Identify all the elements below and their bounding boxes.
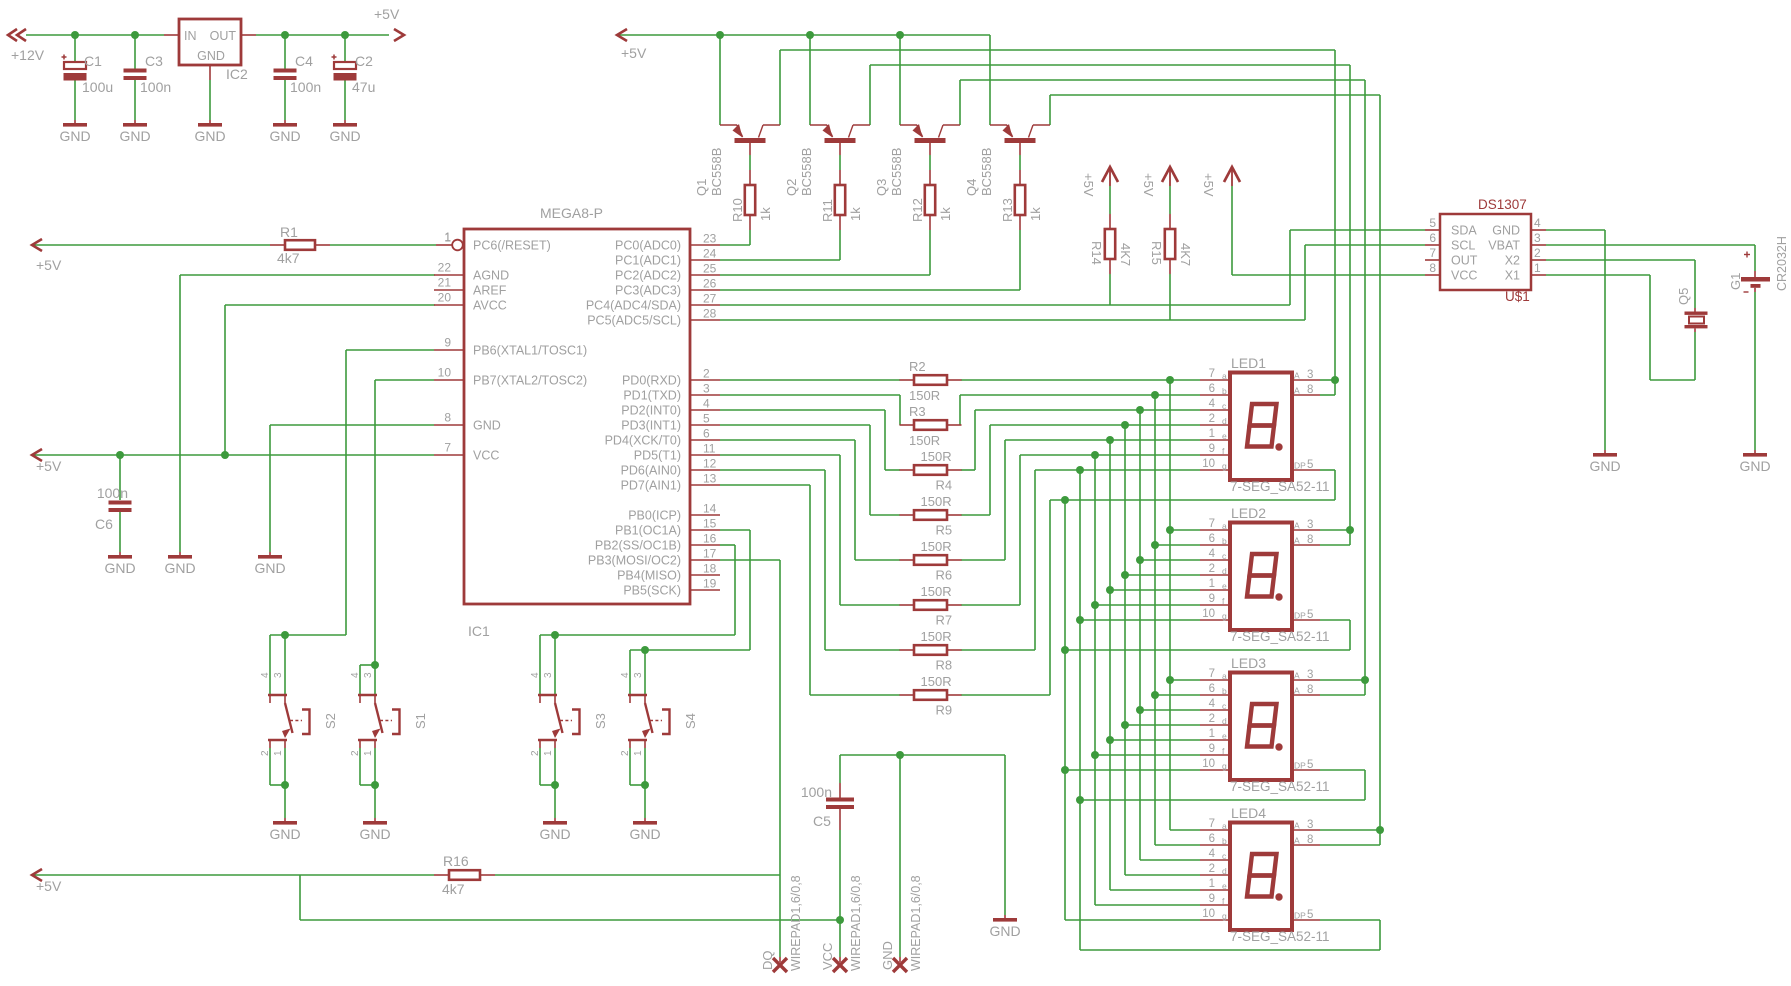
svg-text:9: 9 <box>1209 443 1215 455</box>
svg-text:GND: GND <box>269 128 300 144</box>
svg-text:WIREPAD1,6/0,8: WIREPAD1,6/0,8 <box>849 875 863 971</box>
svg-text:3: 3 <box>1307 669 1313 681</box>
svg-text:G1: G1 <box>1728 273 1743 290</box>
svg-text:+5V: +5V <box>1081 173 1096 197</box>
svg-text:LED2: LED2 <box>1231 505 1266 521</box>
svg-text:100n: 100n <box>97 485 128 501</box>
svg-text:S4: S4 <box>683 713 698 729</box>
svg-text:PC2(ADC2): PC2(ADC2) <box>615 269 681 283</box>
svg-text:X2: X2 <box>1505 254 1520 268</box>
svg-text:g: g <box>1222 911 1227 921</box>
svg-text:4: 4 <box>260 672 271 678</box>
svg-text:GND: GND <box>1739 458 1770 474</box>
svg-text:C2: C2 <box>355 53 373 69</box>
svg-text:e: e <box>1222 431 1227 441</box>
svg-text:27: 27 <box>703 292 717 306</box>
svg-text:26: 26 <box>703 277 717 291</box>
svg-text:PC4(ADC4/SDA): PC4(ADC4/SDA) <box>586 299 681 313</box>
svg-text:PB3(MOSI/OC2): PB3(MOSI/OC2) <box>588 554 681 568</box>
svg-text:+5V: +5V <box>36 878 62 894</box>
svg-text:R3: R3 <box>909 404 926 419</box>
svg-text:7: 7 <box>1209 668 1215 680</box>
svg-text:PC0(ADC0): PC0(ADC0) <box>615 239 681 253</box>
svg-text:d: d <box>1222 866 1227 876</box>
svg-text:3: 3 <box>1307 519 1313 531</box>
svg-text:15: 15 <box>703 517 717 531</box>
svg-text:24: 24 <box>703 247 717 261</box>
svg-text:b: b <box>1222 386 1227 396</box>
svg-text:Q3: Q3 <box>874 179 889 196</box>
svg-text:R14: R14 <box>1089 241 1104 265</box>
svg-text:GND: GND <box>119 128 150 144</box>
svg-text:4: 4 <box>1209 848 1216 860</box>
svg-text:3: 3 <box>1307 369 1313 381</box>
svg-text:6: 6 <box>1209 833 1215 845</box>
svg-text:+5V: +5V <box>374 6 400 22</box>
svg-text:7: 7 <box>1209 818 1215 830</box>
svg-text:IC1: IC1 <box>468 623 490 639</box>
svg-text:1k: 1k <box>758 207 773 221</box>
svg-text:R13: R13 <box>1000 198 1015 222</box>
svg-text:a: a <box>1222 821 1227 831</box>
svg-text:a: a <box>1222 371 1227 381</box>
svg-text:4: 4 <box>1534 216 1541 230</box>
svg-text:10: 10 <box>1202 908 1215 920</box>
svg-text:4k7: 4k7 <box>277 250 300 266</box>
svg-text:16: 16 <box>703 532 717 546</box>
svg-text:DP: DP <box>1294 611 1306 621</box>
svg-text:OUT: OUT <box>1451 254 1478 268</box>
svg-text:4: 4 <box>703 397 710 411</box>
svg-text:S2: S2 <box>323 713 338 729</box>
svg-text:7-SEG_SA52-11: 7-SEG_SA52-11 <box>1230 479 1330 494</box>
svg-text:5: 5 <box>1307 459 1313 471</box>
svg-text:PC3(ADC3): PC3(ADC3) <box>615 284 681 298</box>
svg-text:R11: R11 <box>820 199 835 222</box>
svg-text:VCC: VCC <box>1451 269 1477 283</box>
svg-text:A: A <box>1294 671 1300 681</box>
svg-text:PC5(ADC5/SCL): PC5(ADC5/SCL) <box>587 314 681 328</box>
svg-text:S3: S3 <box>593 713 608 729</box>
svg-text:1: 1 <box>1209 728 1215 740</box>
svg-text:GND: GND <box>359 826 390 842</box>
svg-text:C5: C5 <box>813 813 831 829</box>
svg-text:23: 23 <box>703 232 717 246</box>
svg-text:7-SEG_SA52-11: 7-SEG_SA52-11 <box>1230 629 1330 644</box>
svg-text:7: 7 <box>1209 368 1215 380</box>
svg-text:1k: 1k <box>848 207 863 221</box>
svg-text:S1: S1 <box>413 713 428 729</box>
svg-text:R16: R16 <box>443 853 469 869</box>
svg-text:e: e <box>1222 581 1227 591</box>
svg-text:1: 1 <box>1209 878 1215 890</box>
svg-text:VBAT: VBAT <box>1488 239 1520 253</box>
svg-text:GND: GND <box>1589 458 1620 474</box>
svg-text:PB4(MISO): PB4(MISO) <box>617 569 681 583</box>
svg-text:R5: R5 <box>936 523 953 538</box>
svg-text:AREF: AREF <box>473 284 507 298</box>
svg-text:DP: DP <box>1294 461 1306 471</box>
svg-text:100u: 100u <box>82 79 113 95</box>
svg-text:Q5: Q5 <box>1676 288 1691 305</box>
svg-text:R12: R12 <box>910 198 925 222</box>
svg-text:PD7(AIN1): PD7(AIN1) <box>621 479 681 493</box>
svg-text:BC558B: BC558B <box>799 148 814 196</box>
svg-text:A: A <box>1294 521 1300 531</box>
svg-text:R15: R15 <box>1149 241 1164 265</box>
svg-text:LED4: LED4 <box>1231 805 1266 821</box>
svg-text:PD0(RXD): PD0(RXD) <box>622 374 681 388</box>
svg-text:3: 3 <box>703 382 710 396</box>
svg-text:17: 17 <box>703 547 717 561</box>
svg-text:9: 9 <box>444 336 451 350</box>
svg-text:9: 9 <box>1209 893 1215 905</box>
svg-text:C1: C1 <box>84 53 102 69</box>
svg-text:R9: R9 <box>936 703 953 718</box>
svg-text:g: g <box>1222 761 1227 771</box>
svg-text:4k7: 4k7 <box>442 881 465 897</box>
svg-text:PD3(INT1): PD3(INT1) <box>621 419 681 433</box>
svg-text:MEGA8-P: MEGA8-P <box>540 205 603 221</box>
svg-text:BC558B: BC558B <box>709 148 724 196</box>
svg-text:1: 1 <box>444 231 451 245</box>
svg-text:d: d <box>1222 416 1227 426</box>
svg-text:8: 8 <box>444 411 451 425</box>
svg-text:3: 3 <box>543 672 554 678</box>
svg-text:9: 9 <box>1209 593 1215 605</box>
svg-text:GND: GND <box>539 826 570 842</box>
svg-text:2: 2 <box>1209 863 1215 875</box>
svg-text:7-SEG_SA52-11: 7-SEG_SA52-11 <box>1230 929 1330 944</box>
svg-text:6: 6 <box>703 427 710 441</box>
svg-text:PD2(INT0): PD2(INT0) <box>621 404 681 418</box>
svg-text:5: 5 <box>1429 216 1436 230</box>
svg-text:6: 6 <box>1209 533 1215 545</box>
svg-text:DQ: DQ <box>760 951 775 971</box>
svg-text:SCL: SCL <box>1451 239 1475 253</box>
svg-text:LED3: LED3 <box>1231 655 1266 671</box>
svg-text:OUT: OUT <box>210 29 237 43</box>
svg-text:2: 2 <box>703 367 710 381</box>
svg-text:25: 25 <box>703 262 717 276</box>
svg-text:10: 10 <box>438 366 452 380</box>
svg-text:28: 28 <box>703 307 717 321</box>
svg-text:PD5(T1): PD5(T1) <box>634 449 681 463</box>
svg-text:GND: GND <box>1492 224 1520 238</box>
svg-text:GND: GND <box>329 128 360 144</box>
svg-text:WIREPAD1,6/0,8: WIREPAD1,6/0,8 <box>789 875 803 971</box>
svg-text:13: 13 <box>703 472 717 486</box>
svg-text:5: 5 <box>1307 909 1313 921</box>
svg-text:g: g <box>1222 611 1227 621</box>
svg-text:+12V: +12V <box>11 47 45 63</box>
svg-text:VCC: VCC <box>820 943 835 970</box>
svg-text:AVCC: AVCC <box>473 299 507 313</box>
svg-text:GND: GND <box>104 560 135 576</box>
svg-text:1: 1 <box>363 750 374 756</box>
svg-text:100n: 100n <box>801 784 832 800</box>
svg-text:A: A <box>1294 536 1300 546</box>
svg-text:BC558B: BC558B <box>889 148 904 196</box>
svg-text:4K7: 4K7 <box>1118 243 1133 266</box>
svg-text:g: g <box>1222 461 1227 471</box>
svg-text:VCC: VCC <box>473 449 499 463</box>
svg-text:1k: 1k <box>1028 207 1043 221</box>
svg-text:U$1: U$1 <box>1505 289 1530 304</box>
svg-text:GND: GND <box>880 941 895 970</box>
svg-text:7: 7 <box>1429 246 1436 260</box>
svg-text:3: 3 <box>633 672 644 678</box>
svg-text:GND: GND <box>59 128 90 144</box>
svg-text:20: 20 <box>438 291 452 305</box>
svg-text:2: 2 <box>1209 713 1215 725</box>
svg-text:GND: GND <box>194 128 225 144</box>
svg-text:Q2: Q2 <box>784 179 799 196</box>
svg-text:5: 5 <box>1307 759 1313 771</box>
svg-text:R6: R6 <box>936 568 953 583</box>
svg-text:21: 21 <box>438 276 452 290</box>
svg-text:R2: R2 <box>909 359 926 374</box>
svg-text:150R: 150R <box>909 388 940 403</box>
svg-text:14: 14 <box>703 502 717 516</box>
svg-text:PD1(TXD): PD1(TXD) <box>623 389 681 403</box>
svg-text:8: 8 <box>1307 534 1313 546</box>
svg-text:GND: GND <box>197 49 225 63</box>
svg-text:d: d <box>1222 716 1227 726</box>
svg-text:A: A <box>1294 371 1300 381</box>
svg-text:1: 1 <box>1209 578 1215 590</box>
svg-text:Q1: Q1 <box>694 179 709 196</box>
svg-text:150R: 150R <box>921 449 952 464</box>
svg-text:PB5(SCK): PB5(SCK) <box>623 584 681 598</box>
svg-text:e: e <box>1222 731 1227 741</box>
svg-text:d: d <box>1222 566 1227 576</box>
svg-text:PB1(OC1A): PB1(OC1A) <box>615 524 681 538</box>
svg-text:7: 7 <box>444 441 451 455</box>
svg-text:19: 19 <box>703 577 717 591</box>
svg-text:PD6(AIN0): PD6(AIN0) <box>621 464 681 478</box>
svg-text:DS1307: DS1307 <box>1478 197 1527 212</box>
svg-text:8: 8 <box>1307 684 1313 696</box>
svg-text:2: 2 <box>620 750 631 756</box>
svg-text:PB7(XTAL2/TOSC2): PB7(XTAL2/TOSC2) <box>473 374 587 388</box>
svg-text:2: 2 <box>1209 563 1215 575</box>
svg-text:150R: 150R <box>921 674 952 689</box>
svg-text:12: 12 <box>703 457 717 471</box>
svg-text:3: 3 <box>273 672 284 678</box>
svg-text:22: 22 <box>438 261 452 275</box>
svg-text:3: 3 <box>363 672 374 678</box>
svg-text:8: 8 <box>1307 384 1313 396</box>
svg-text:PB2(SS/OC1B): PB2(SS/OC1B) <box>595 539 681 553</box>
svg-text:1: 1 <box>1534 261 1541 275</box>
svg-text:8: 8 <box>1429 261 1436 275</box>
svg-text:Q4: Q4 <box>964 179 979 196</box>
svg-text:11: 11 <box>703 442 716 456</box>
svg-text:2: 2 <box>1534 246 1541 260</box>
svg-text:8: 8 <box>1307 834 1313 846</box>
svg-text:GND: GND <box>989 923 1020 939</box>
svg-text:10: 10 <box>1202 458 1215 470</box>
svg-text:4: 4 <box>620 672 631 678</box>
svg-text:GND: GND <box>164 560 195 576</box>
svg-text:AGND: AGND <box>473 269 509 283</box>
svg-text:A: A <box>1294 821 1300 831</box>
svg-text:+5V: +5V <box>36 458 62 474</box>
svg-text:2: 2 <box>1209 413 1215 425</box>
svg-text:C3: C3 <box>145 53 163 69</box>
svg-text:150R: 150R <box>909 433 940 448</box>
svg-text:9: 9 <box>1209 743 1215 755</box>
svg-text:4: 4 <box>530 672 541 678</box>
svg-text:1k: 1k <box>938 207 953 221</box>
svg-text:+5V: +5V <box>1141 173 1156 197</box>
svg-text:a: a <box>1222 671 1227 681</box>
svg-text:47u: 47u <box>352 79 375 95</box>
svg-text:A: A <box>1294 386 1300 396</box>
svg-text:10: 10 <box>1202 758 1215 770</box>
svg-text:3: 3 <box>1534 231 1541 245</box>
svg-text:e: e <box>1222 881 1227 891</box>
svg-text:C6: C6 <box>95 516 113 532</box>
svg-text:+5V: +5V <box>621 45 647 61</box>
svg-text:4: 4 <box>1209 398 1216 410</box>
svg-text:7: 7 <box>1209 518 1215 530</box>
svg-text:6: 6 <box>1209 383 1215 395</box>
svg-text:a: a <box>1222 521 1227 531</box>
svg-text:1: 1 <box>273 750 284 756</box>
svg-text:b: b <box>1222 836 1227 846</box>
svg-text:SDA: SDA <box>1451 224 1477 238</box>
svg-text:2: 2 <box>530 750 541 756</box>
svg-text:R10: R10 <box>730 198 745 222</box>
svg-text:2: 2 <box>350 750 361 756</box>
svg-text:DP: DP <box>1294 911 1306 921</box>
svg-text:150R: 150R <box>921 494 952 509</box>
svg-text:1: 1 <box>633 750 644 756</box>
svg-text:6: 6 <box>1429 231 1436 245</box>
svg-text:IN: IN <box>184 29 197 43</box>
svg-text:10: 10 <box>1202 608 1215 620</box>
svg-text:2: 2 <box>260 750 271 756</box>
svg-text:5: 5 <box>703 412 710 426</box>
svg-text:3: 3 <box>1307 819 1313 831</box>
svg-text:150R: 150R <box>921 539 952 554</box>
svg-text:PC6(/RESET): PC6(/RESET) <box>473 239 551 253</box>
svg-text:GND: GND <box>629 826 660 842</box>
svg-text:5: 5 <box>1307 609 1313 621</box>
svg-text:4: 4 <box>1209 698 1216 710</box>
svg-text:PB6(XTAL1/TOSC1): PB6(XTAL1/TOSC1) <box>473 344 587 358</box>
svg-text:PC1(ADC1): PC1(ADC1) <box>615 254 681 268</box>
svg-text:WIREPAD1,6/0,8: WIREPAD1,6/0,8 <box>909 875 923 971</box>
svg-text:6: 6 <box>1209 683 1215 695</box>
svg-text:CR2032H: CR2032H <box>1775 236 1789 291</box>
svg-text:X1: X1 <box>1505 269 1520 283</box>
svg-text:GND: GND <box>269 826 300 842</box>
svg-text:100n: 100n <box>140 79 171 95</box>
svg-text:7-SEG_SA52-11: 7-SEG_SA52-11 <box>1230 779 1330 794</box>
svg-text:GND: GND <box>473 419 501 433</box>
svg-text:18: 18 <box>703 562 717 576</box>
svg-text:C4: C4 <box>295 53 313 69</box>
svg-text:BC558B: BC558B <box>979 148 994 196</box>
svg-text:LED1: LED1 <box>1231 355 1266 371</box>
svg-text:b: b <box>1222 536 1227 546</box>
svg-text:R1: R1 <box>280 224 298 240</box>
svg-text:1: 1 <box>543 750 554 756</box>
svg-text:100n: 100n <box>290 79 321 95</box>
svg-text:150R: 150R <box>921 584 952 599</box>
svg-text:R7: R7 <box>936 613 953 628</box>
svg-text:IC2: IC2 <box>226 66 248 82</box>
svg-text:4: 4 <box>350 672 361 678</box>
svg-text:A: A <box>1294 686 1300 696</box>
svg-text:PD4(XCK/T0): PD4(XCK/T0) <box>605 434 681 448</box>
svg-text:b: b <box>1222 686 1227 696</box>
svg-text:GND: GND <box>254 560 285 576</box>
svg-text:A: A <box>1294 836 1300 846</box>
svg-text:PB0(ICP): PB0(ICP) <box>628 509 681 523</box>
svg-text:1: 1 <box>1209 428 1215 440</box>
svg-text:R8: R8 <box>936 658 953 673</box>
svg-text:4: 4 <box>1209 548 1216 560</box>
svg-text:DP: DP <box>1294 761 1306 771</box>
svg-text:+5V: +5V <box>36 257 62 273</box>
svg-text:4K7: 4K7 <box>1178 243 1193 266</box>
svg-text:150R: 150R <box>921 629 952 644</box>
svg-text:R4: R4 <box>936 478 953 493</box>
svg-text:+5V: +5V <box>1201 173 1216 197</box>
